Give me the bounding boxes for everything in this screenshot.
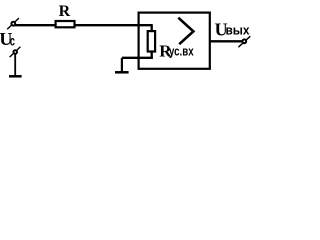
resistor Rus.vh bbox=[148, 31, 155, 51]
wire ground line bbox=[122, 57, 153, 59]
wire ground input bbox=[14, 54, 16, 75]
ground input bar bbox=[9, 75, 22, 78]
wire input bbox=[14, 24, 153, 26]
svg-text:вых: вых bbox=[226, 23, 251, 38]
terminal ground input bbox=[10, 47, 21, 57]
wire lead down from input bbox=[151, 25, 153, 31]
terminal input bbox=[7, 18, 19, 29]
svg-text:ус.вх: ус.вх bbox=[169, 43, 194, 58]
svg-text:с: с bbox=[10, 33, 15, 49]
wire ground drop bbox=[121, 58, 123, 72]
amplifier chevron bbox=[178, 18, 193, 45]
resistor R1 bbox=[56, 21, 75, 27]
svg-text:R: R bbox=[59, 3, 71, 20]
amplifier box U1 bbox=[139, 13, 210, 69]
wire output bbox=[210, 40, 244, 42]
terminal output bbox=[238, 36, 250, 47]
wire lead down to ground line bbox=[151, 52, 153, 59]
ground bar amplifier bbox=[115, 71, 129, 74]
